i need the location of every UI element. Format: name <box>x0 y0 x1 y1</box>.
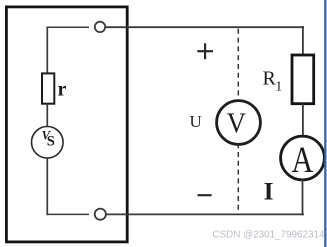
voltmeter V <box>217 101 261 145</box>
resistor r <box>42 73 54 103</box>
voltage source VS <box>32 127 64 159</box>
blue page border (right) <box>324 0 326 247</box>
svg-text:V: V <box>227 109 247 140</box>
wire: source bottom to bottom rail <box>46 158 48 215</box>
terminal (bottom) <box>95 209 106 220</box>
svg-text:I: I <box>264 176 274 205</box>
terminal (top) <box>95 22 105 32</box>
wire: resistor bottom to source Vs <box>46 104 48 128</box>
svg-text:S: S <box>47 134 55 150</box>
svg-text:A: A <box>292 140 314 181</box>
wire: ammeter to bottom rail <box>302 180 304 216</box>
wire: top inner horizontal from corner to top terminal <box>47 26 90 28</box>
svg-text:1: 1 <box>275 80 282 95</box>
resistor R1 <box>292 55 314 104</box>
wire: top rail from terminal to right branch <box>105 26 304 28</box>
minus sign <box>198 194 212 196</box>
wire: down from top rail to R1 <box>302 26 304 56</box>
dashed measurement line between + and - <box>237 29 239 214</box>
wire: R1 to ammeter <box>302 104 304 137</box>
svg-text:U: U <box>190 112 202 131</box>
svg-text:r: r <box>58 79 67 101</box>
wire: left vertical down to resistor r <box>46 27 48 74</box>
wire: bottom inner horizontal to bottom terminal <box>47 213 90 215</box>
ammeter A <box>281 136 325 180</box>
wire: bottom rail from terminal to right branch <box>106 213 304 215</box>
plus sign <box>197 50 213 52</box>
svg-text:CSDN @2301_79962314: CSDN @2301_79962314 <box>212 229 325 240</box>
source box (two-terminal network enclosure) <box>6 7 127 242</box>
